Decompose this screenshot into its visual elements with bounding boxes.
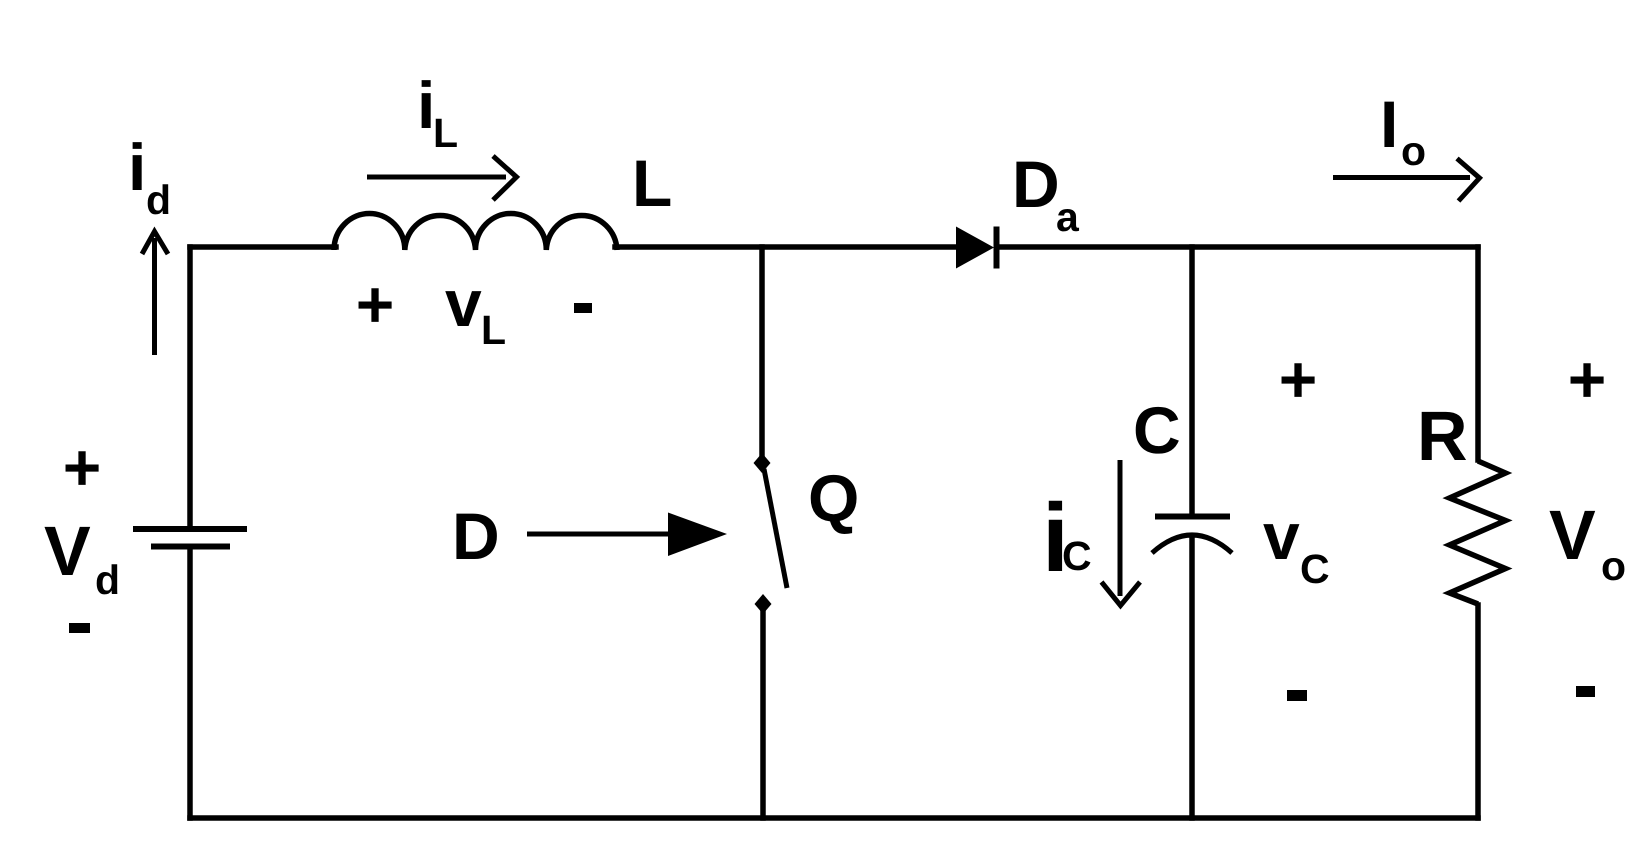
- svg-text:V: V: [1549, 496, 1596, 574]
- svg-text:+: +: [63, 430, 102, 504]
- arrow D (duty / gate drive, right, filled head): [527, 513, 727, 557]
- svg-text:i: i: [128, 130, 146, 204]
- wire capacitor branch upper: [1189, 247, 1195, 514]
- diode Da triangle: [956, 227, 994, 269]
- svg-text:a: a: [1056, 194, 1080, 240]
- arrow iL (inductor current, right): [367, 156, 517, 200]
- arrow iC (capacitor current, down): [1102, 460, 1141, 606]
- svg-text:Q: Q: [808, 461, 859, 535]
- svg-text:L: L: [481, 307, 506, 353]
- capacitor C bottom curved plate: [1152, 535, 1232, 553]
- battery Vd plate short (-): [151, 544, 230, 550]
- diode Da cathode bar: [994, 227, 1000, 269]
- label minus vL: [574, 303, 592, 313]
- wire switch branch lower: [760, 612, 766, 818]
- wire load branch upper: [1475, 247, 1481, 460]
- svg-text:v: v: [445, 266, 482, 340]
- wire switch branch upper: [759, 247, 765, 455]
- switch Q top contact dot: [754, 453, 771, 473]
- svg-text:o: o: [1601, 543, 1626, 589]
- arrow id (current into node, up): [142, 232, 168, 356]
- svg-text:C: C: [1300, 546, 1330, 592]
- label minus Vd: [69, 623, 90, 633]
- capacitor C top plate: [1155, 514, 1230, 520]
- svg-text:v: v: [1263, 499, 1300, 573]
- svg-text:+: +: [1279, 342, 1318, 416]
- svg-text:+: +: [1568, 342, 1607, 416]
- svg-text:d: d: [95, 557, 120, 603]
- svg-text:R: R: [1417, 397, 1468, 475]
- wire capacitor branch lower: [1189, 536, 1195, 818]
- resistor R zigzag: [1450, 461, 1506, 604]
- svg-text:D: D: [452, 499, 500, 573]
- switch Q blade: [764, 469, 787, 588]
- wire top-middle segment (inductor to diode anode, through switch node): [615, 244, 956, 250]
- wire top-right segment (diode cathode to output corner): [998, 244, 1478, 250]
- wire load branch lower: [1475, 605, 1481, 818]
- inductor L: [334, 214, 617, 251]
- arrow Io (output current, right): [1333, 159, 1480, 202]
- svg-text:I: I: [1380, 87, 1398, 161]
- svg-text:+: +: [356, 267, 395, 341]
- svg-text:V: V: [44, 512, 91, 590]
- svg-text:o: o: [1401, 128, 1426, 174]
- wire top-left segment (source to inductor): [190, 244, 336, 250]
- svg-text:C: C: [1133, 393, 1181, 467]
- svg-text:L: L: [632, 146, 672, 220]
- wire left vertical upper (node to battery +): [187, 247, 193, 527]
- svg-text:D: D: [1012, 147, 1060, 221]
- svg-text:L: L: [433, 110, 458, 156]
- wire left vertical lower (battery - to bottom net): [187, 548, 193, 818]
- label minus Vo: [1576, 686, 1595, 697]
- wire bottom net: [190, 815, 1478, 821]
- switch Q bottom contact dot: [755, 594, 772, 614]
- svg-text:C: C: [1062, 533, 1092, 579]
- svg-text:d: d: [146, 177, 171, 223]
- battery Vd plate long (+): [133, 526, 247, 532]
- label minus vC: [1287, 690, 1307, 701]
